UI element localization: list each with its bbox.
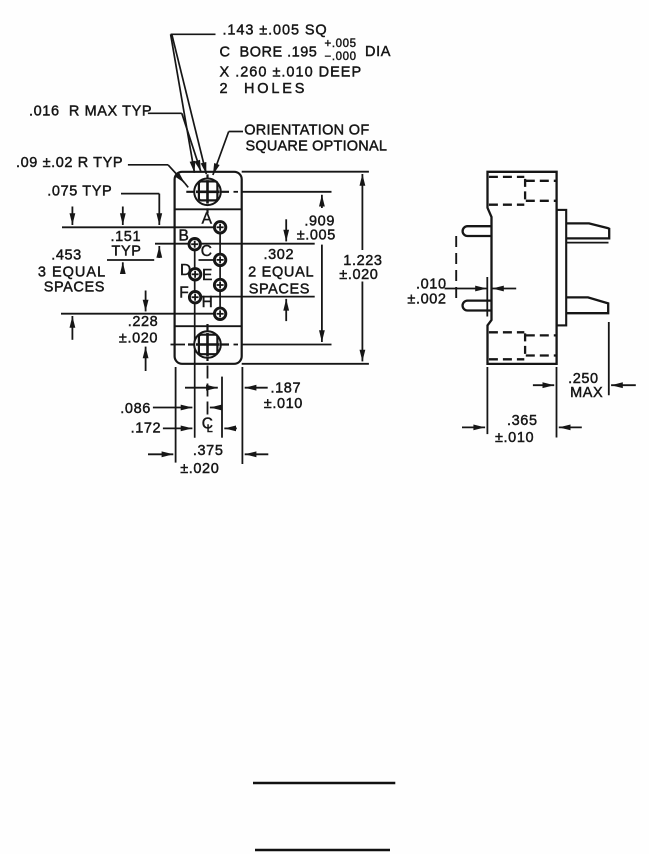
leader for orientation note	[229, 131, 243, 133]
dashed datum line left of pins	[455, 236, 457, 301]
svg-text:±.020: ±.020	[119, 330, 158, 346]
left pin top	[463, 226, 492, 236]
dimension .151 arrows	[122, 207, 124, 226]
hidden line hole bottom vertical top	[524, 179, 526, 203]
body top edge extension line	[242, 171, 369, 173]
dimension .250 arrows	[533, 384, 554, 386]
row F extension line	[202, 296, 315, 298]
hidden line square hole top left upper	[489, 176, 524, 178]
svg-text:3 EQUAL: 3 EQUAL	[38, 264, 106, 280]
extension line body right edge bottom	[556, 367, 558, 438]
svg-text:.365: .365	[507, 413, 538, 429]
extension line pin tip bottom	[608, 322, 610, 395]
hidden line square hole bottom left lower	[489, 358, 524, 360]
pin hole H	[214, 308, 225, 319]
svg-text:ORIENTATION OF: ORIENTATION OF	[244, 123, 369, 139]
dimension .453 arrows	[71, 207, 73, 226]
svg-text:2 HOLES: 2 HOLES	[220, 81, 308, 97]
svg-text:B: B	[179, 228, 190, 245]
extension line pin face	[486, 277, 488, 317]
svg-text:E: E	[202, 267, 213, 284]
row H extension line	[61, 313, 217, 315]
svg-text:F: F	[179, 285, 189, 302]
svg-text:.187: .187	[271, 381, 302, 397]
svg-text:.075 TYP: .075 TYP	[47, 183, 112, 199]
counterbore circle top	[194, 179, 221, 206]
pin column centerline right (A C E H)	[219, 221, 221, 321]
bottom rule line 2	[255, 849, 390, 852]
dimension .375 arrows	[148, 453, 173, 455]
svg-text:±.005: ±.005	[297, 228, 336, 244]
row C extension line left	[107, 259, 154, 261]
dimension 1.223 arrows	[361, 174, 363, 250]
pin hole C	[214, 254, 225, 265]
pin column centerline left (B D F), extends below body	[194, 237, 196, 437]
bottom extension line hole centerline	[207, 418, 209, 420]
svg-text:±.020: ±.020	[339, 267, 378, 283]
bottom square hole centerline horizontal	[171, 344, 186, 346]
front body face step line upper	[175, 208, 242, 210]
dimension .086 leader and arrows	[153, 407, 193, 409]
svg-text:DIA: DIA	[365, 44, 391, 60]
side view mounting face plate	[557, 210, 567, 326]
cross in bottom square hole	[196, 343, 220, 346]
bottom extension line body left edge	[175, 367, 177, 463]
pin hole F	[189, 292, 200, 303]
svg-text:SPACES: SPACES	[44, 279, 105, 295]
left pin bottom	[463, 301, 492, 311]
right pin top	[566, 223, 609, 238]
svg-text:H: H	[202, 294, 214, 311]
front body face step line lower	[175, 325, 242, 327]
square broach hole bottom	[199, 335, 218, 355]
svg-text:.453: .453	[51, 248, 82, 264]
hidden line counterbore top lower	[526, 200, 557, 202]
svg-text:−.000: −.000	[325, 51, 357, 63]
svg-text:.086: .086	[120, 401, 151, 417]
svg-text:±.020: ±.020	[180, 461, 219, 477]
svg-text:±.010: ±.010	[495, 430, 534, 446]
bottom extension line body right edge	[241, 367, 243, 464]
pin hole A	[214, 222, 225, 233]
svg-text:.010: .010	[416, 277, 447, 293]
svg-text:.016 R MAX TYP: .016 R MAX TYP	[29, 103, 152, 119]
dimension .075 leader and arrows	[121, 193, 159, 195]
side view body outline	[488, 172, 557, 364]
pin hole B	[189, 239, 200, 250]
leader for .143 square note	[171, 33, 216, 35]
svg-text:D: D	[180, 262, 192, 279]
svg-text:.09 ±.02 R TYP: .09 ±.02 R TYP	[16, 155, 123, 171]
row C short line inside body	[199, 259, 218, 261]
svg-text:±.002: ±.002	[407, 291, 446, 307]
hidden line counterbore top upper	[526, 180, 557, 182]
svg-text:SPACES: SPACES	[249, 281, 310, 297]
svg-text:C BORE .195: C BORE .195	[220, 45, 318, 61]
svg-text:A: A	[202, 211, 213, 228]
row B extension line	[155, 243, 315, 245]
bottom square hole centerline vertical	[206, 324, 208, 361]
body bottom edge extension line	[242, 363, 369, 365]
right pin top lower edge line	[566, 242, 608, 244]
hidden line square hole top left lower	[489, 204, 524, 206]
bottom extension line column A	[221, 377, 223, 438]
dimension .172 leader and arrows	[163, 427, 193, 429]
extension line body left edge bottom	[486, 367, 488, 434]
svg-text:2 EQUAL: 2 EQUAL	[248, 265, 314, 281]
pin hole D	[189, 269, 200, 280]
svg-text:X .260 ±.010 DEEP: X .260 ±.010 DEEP	[220, 64, 363, 80]
front view body outline	[175, 172, 242, 364]
square broach hole top	[199, 181, 218, 200]
hidden line square hole bottom left upper	[489, 331, 524, 333]
svg-text:.228: .228	[128, 314, 159, 330]
dimension .228 arrows	[145, 291, 147, 312]
right pin bottom	[566, 297, 608, 313]
cross in top square hole	[196, 191, 220, 194]
dimension .302 arrows	[285, 219, 287, 241]
svg-text:SQUARE OPTIONAL: SQUARE OPTIONAL	[246, 139, 388, 155]
top square hole centerline vertical	[206, 174, 208, 213]
hidden line hole bottom vertical bottom	[524, 333, 526, 357]
row A extension line	[62, 226, 219, 228]
hidden line counterbore bottom upper	[526, 334, 557, 336]
svg-text:C: C	[201, 243, 213, 260]
dimension .187 arrows	[185, 387, 218, 389]
svg-text:MAX: MAX	[570, 385, 603, 401]
svg-text:±.010: ±.010	[264, 396, 303, 412]
pin hole E	[214, 279, 225, 290]
dimension .909 arrows	[321, 195, 323, 208]
top square hole centerline horizontal	[186, 191, 229, 193]
svg-text:.143 ±.005 SQ: .143 ±.005 SQ	[223, 23, 328, 39]
leader for .016 R note	[148, 112, 182, 114]
bottom rule line 1	[253, 782, 395, 785]
leader for .09 R note	[128, 164, 168, 166]
counterbore circle bottom	[194, 331, 221, 358]
svg-text:TYP: TYP	[112, 244, 142, 260]
svg-text:.172: .172	[131, 421, 162, 437]
svg-text:L: L	[207, 423, 214, 435]
dimension .365 arrows	[462, 426, 485, 428]
hidden line counterbore bottom lower	[526, 354, 557, 356]
svg-text:.302: .302	[264, 247, 295, 263]
svg-text:.375: .375	[193, 443, 224, 459]
dimension .010 arrows	[445, 288, 487, 290]
svg-text:+.005: +.005	[325, 38, 357, 50]
